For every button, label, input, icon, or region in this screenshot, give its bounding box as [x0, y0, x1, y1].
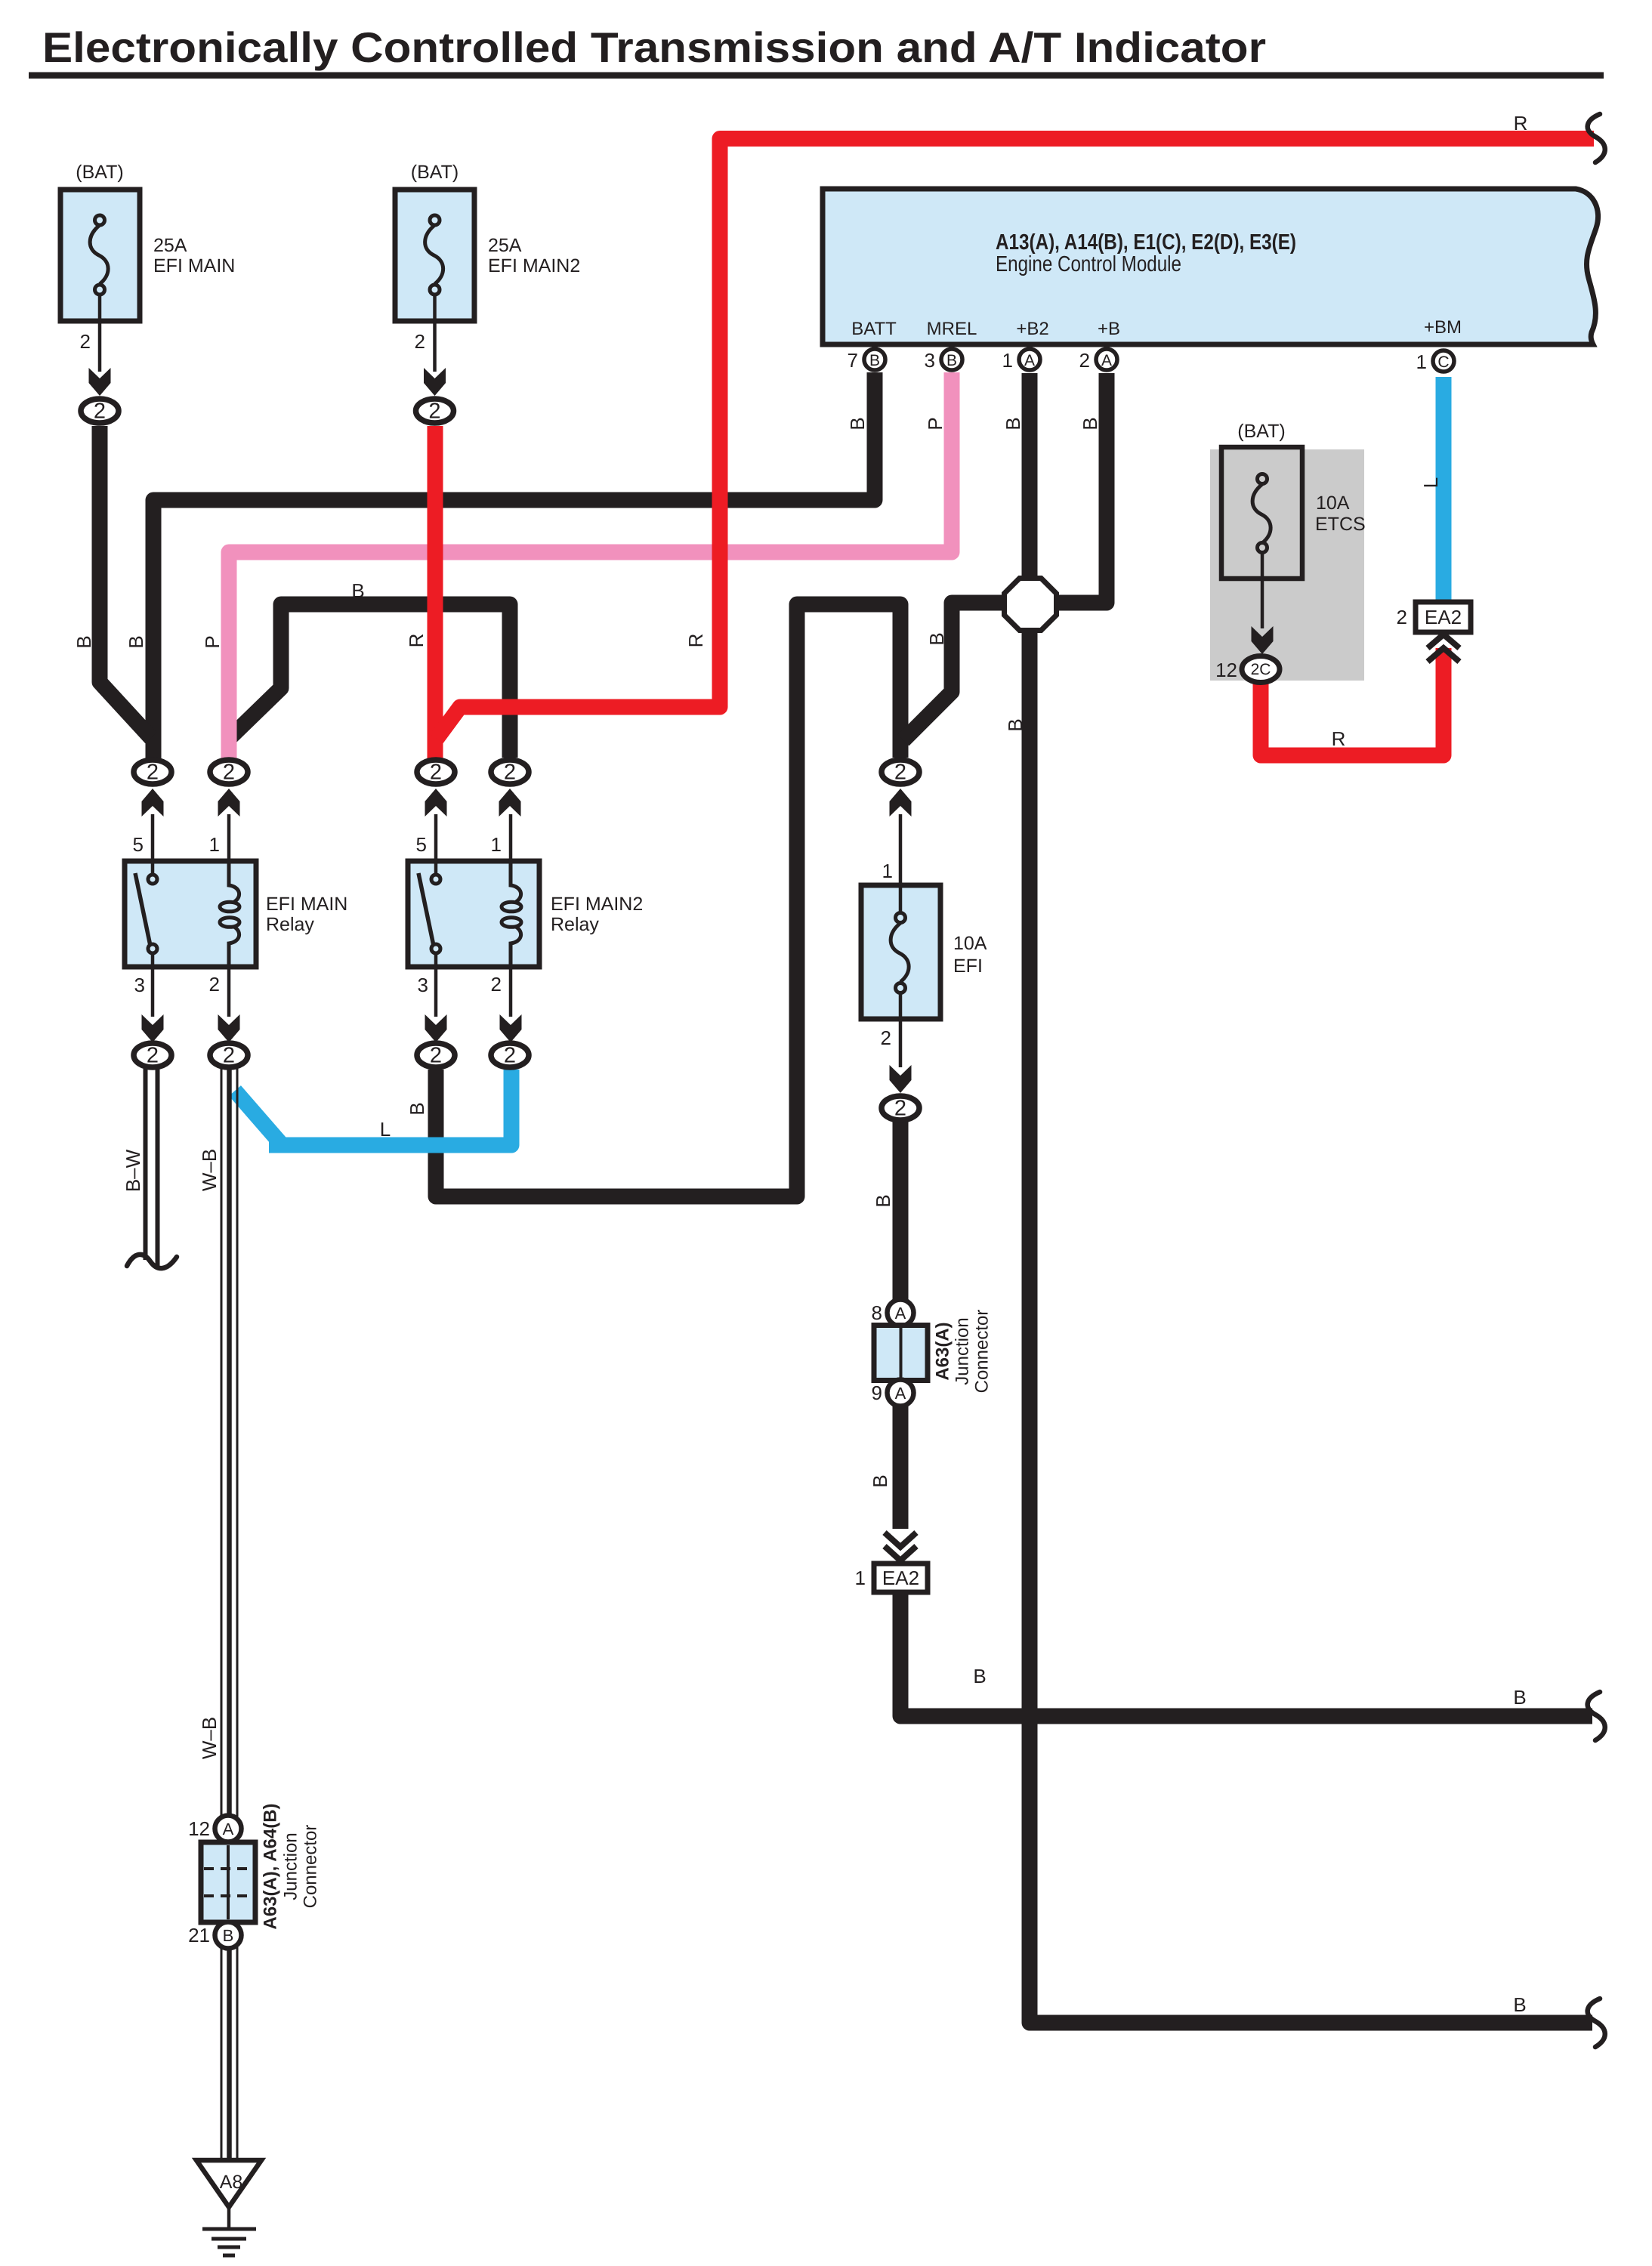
node connector 2 at relay1 pin 2	[210, 1043, 248, 1067]
junction connector A63(A) pin 8 circle	[888, 1300, 914, 1326]
wire B below EA2 pin 1: down, corner, right to break	[900, 1592, 1592, 1716]
node connector 2 at relay2 pin 2	[491, 1043, 529, 1067]
node octagon junction of +B2/+B/B wires	[1005, 579, 1057, 631]
svg-text:2: 2	[430, 1044, 442, 1068]
svg-text:W–B: W–B	[198, 1149, 221, 1191]
node connector 2 at relay EFI MAIN pin 1	[210, 760, 248, 784]
svg-text:2: 2	[428, 400, 440, 424]
svg-text:A63(A): A63(A)	[933, 1322, 953, 1380]
node connector 2 at relay1 pin 3	[134, 1043, 171, 1067]
svg-text:1: 1	[1416, 350, 1427, 373]
wire P pink overlay at relay1 pin1 junction	[221, 709, 237, 758]
wire B BATT: ECM BATT pin left and down to relay EFI MAIN pin 5	[153, 372, 875, 758]
svg-text:A: A	[223, 1820, 234, 1838]
svg-text:EFI MAIN: EFI MAIN	[266, 894, 347, 915]
wire R red: fuse ETCS 2C pin 12 down, right, up to EA2 pin 2	[1261, 648, 1444, 755]
fuse EFI MAIN2 symbol	[425, 225, 443, 284]
svg-text:2: 2	[881, 1026, 891, 1049]
ETCS gray panel	[1210, 449, 1364, 681]
EA2 connector box (pin 1)	[874, 1564, 928, 1592]
svg-text:10A: 10A	[953, 933, 987, 954]
relay1 pin 3 wire and arrow into connector	[151, 967, 155, 1017]
ECM box (Engine Control Module)	[823, 189, 1598, 344]
relay1 pin 2 wire and arrow into connector	[227, 967, 231, 1017]
svg-text:12: 12	[1215, 659, 1237, 681]
junction connector A63(A) pin 9 circle	[888, 1380, 914, 1406]
svg-text:B: B	[869, 1474, 891, 1487]
svg-text:25A: 25A	[153, 235, 187, 256]
svg-text:(BAT): (BAT)	[1237, 421, 1285, 442]
svg-text:3: 3	[134, 974, 145, 996]
svg-text:2: 2	[94, 400, 106, 424]
svg-text:B: B	[846, 417, 869, 430]
svg-text:B: B	[223, 1926, 234, 1945]
svg-text:8: 8	[872, 1301, 882, 1324]
svg-text:1: 1	[882, 860, 893, 882]
svg-text:B: B	[946, 352, 957, 369]
svg-text:7: 7	[848, 349, 858, 372]
svg-text:A: A	[1024, 352, 1035, 369]
wire B EFI fuse pin2 oval down to junction connector A63(A) pin 8	[893, 1121, 909, 1301]
fuse ETCS symbol	[1252, 484, 1271, 543]
svg-text:2: 2	[894, 1097, 906, 1121]
svg-text:B: B	[1513, 1686, 1526, 1709]
svg-text:1: 1	[855, 1567, 866, 1589]
ECM pin +B2 circle 1 A	[1019, 349, 1040, 370]
svg-text:EFI MAIN2: EFI MAIN2	[551, 894, 643, 915]
svg-text:Relay: Relay	[551, 914, 599, 935]
svg-text:R: R	[1332, 727, 1346, 750]
arrow into fuse EFI MAIN lower connector	[98, 295, 102, 372]
svg-text:2: 2	[223, 761, 235, 785]
svg-text:B: B	[869, 352, 880, 369]
fuse EFI box	[861, 885, 940, 1019]
ECM pin +BM circle 1 C	[1433, 350, 1454, 372]
junction connector A63(A) body	[874, 1326, 928, 1381]
svg-text:2C: 2C	[1251, 661, 1271, 678]
svg-text:B: B	[925, 632, 948, 645]
ground hatching	[227, 2207, 231, 2229]
svg-text:B: B	[1513, 1993, 1526, 2016]
svg-text:9: 9	[872, 1382, 882, 1404]
svg-text:B: B	[1079, 417, 1101, 430]
ECM pin +B circle 2 A	[1096, 349, 1117, 370]
ECM pin MREL circle 3 B	[941, 349, 962, 370]
svg-text:R: R	[1514, 112, 1528, 134]
wire B-W from relay EFI MAIN pin 3 (two black lines)	[144, 1069, 148, 1260]
wire B octagon junction bottom: long vertical down, right to break	[1030, 627, 1592, 2023]
svg-text:R: R	[684, 634, 707, 648]
svg-text:R: R	[405, 634, 428, 648]
wire W-B from junction connector pin 21 down to ground A8	[227, 1947, 232, 2160]
svg-text:2: 2	[1397, 606, 1407, 628]
svg-text:21: 21	[188, 1924, 210, 1946]
junction connector A63(A),A64(B) pin 21 circle B	[215, 1922, 242, 1949]
wire B +B: ECM +B pin down and left into octagon junction	[1053, 373, 1107, 603]
EA2 connector box (pin 2)	[1416, 602, 1471, 632]
svg-text:B: B	[351, 579, 364, 602]
svg-text:+B: +B	[1098, 319, 1120, 339]
node connector 2 at relay2 pin 3	[417, 1043, 455, 1067]
relay EFI MAIN2 box	[408, 861, 539, 967]
node connector 2 at relay EFI MAIN2 pin 1	[491, 760, 529, 784]
svg-text:+B2: +B2	[1016, 319, 1048, 339]
arrow up into relay1 pin1 connector, pin 1 wire	[218, 789, 240, 817]
svg-text:Electronically Controlled Tran: Electronically Controlled Transmission a…	[42, 23, 1266, 71]
svg-text:B: B	[406, 1102, 428, 1115]
svg-text:P: P	[924, 417, 946, 430]
wire B junction connector A63(A) pin 9 down to EA2 pin 1	[893, 1405, 909, 1529]
svg-text:2: 2	[894, 761, 906, 785]
svg-text:Junction: Junction	[953, 1317, 973, 1385]
relay EFI MAIN box	[125, 861, 256, 967]
wire P MREL pink: ECM MREL pin to relay EFI MAIN pin 1	[229, 372, 952, 758]
svg-text:B: B	[125, 635, 147, 648]
wire L blue diagonal from relay1 pin2 (under W-B wire)	[235, 1091, 280, 1143]
svg-text:10A: 10A	[1316, 492, 1350, 514]
svg-text:B: B	[872, 1194, 894, 1207]
break squiggle at B wire right end (middle)	[1588, 1692, 1605, 1740]
svg-text:2: 2	[504, 761, 516, 785]
svg-text:Connector: Connector	[301, 1825, 321, 1909]
arrow up into relay2 pin5 connector, pin 5 wire	[425, 789, 447, 817]
svg-text:2: 2	[147, 761, 159, 785]
arrow up into relay1 pin5 connector, pin 5 wire	[142, 789, 164, 817]
svg-text:Connector: Connector	[972, 1310, 993, 1394]
svg-text:25A: 25A	[488, 235, 522, 256]
relay EFI MAIN switch	[135, 873, 150, 946]
node connector 2 at relay EFI MAIN2 pin 5	[417, 760, 455, 784]
EFI fuse pin 2 wire and arrow into connector	[899, 993, 903, 1067]
svg-text:ETCS: ETCS	[1315, 514, 1366, 535]
svg-text:2: 2	[415, 330, 425, 353]
svg-text:2: 2	[147, 1044, 159, 1068]
wire L blue: relay1 pin2 branch diagonal, right, up to relay2 pin 2	[269, 1070, 511, 1145]
relay EFI MAIN2 coil	[511, 861, 521, 902]
node connector 2 above fuse EFI pin 1	[882, 760, 919, 784]
arrow up into relay2 pin1 connector, pin 1 wire	[499, 789, 521, 817]
svg-text:B: B	[73, 635, 95, 648]
break squiggle at B wire right end (bottom)	[1588, 1999, 1605, 2047]
arrow up into EFI fuse upper connector, pin 1 wire	[890, 789, 912, 817]
svg-text:BATT: BATT	[851, 319, 897, 339]
svg-text:1: 1	[491, 833, 502, 856]
fuse ETCS box	[1221, 447, 1302, 579]
svg-text:B: B	[973, 1665, 986, 1687]
svg-text:2: 2	[209, 973, 220, 996]
wire R red: fuse EFI MAIN2 down to relay EFI MAIN2 pin 5	[428, 426, 443, 758]
break squiggle at B-W wire end	[127, 1255, 177, 1268]
wire B +B2: ECM +B2 pin down to octagon junction	[1022, 373, 1038, 582]
svg-text:2: 2	[223, 1044, 235, 1068]
node connector 2 below fuse EFI MAIN	[81, 399, 119, 423]
wire B relay EFI MAIN2 pin5 output: down, right, up, right, down to EFI fuse node	[436, 604, 900, 1196]
svg-text:1: 1	[209, 833, 220, 856]
svg-text:5: 5	[416, 833, 427, 856]
svg-text:Engine Control Module: Engine Control Module	[996, 252, 1181, 276]
svg-text:Junction: Junction	[281, 1832, 301, 1900]
relay EFI MAIN coil	[229, 861, 239, 902]
svg-text:2: 2	[80, 330, 91, 353]
title underline	[29, 73, 1604, 79]
junction connector A63(A),A64(B) body	[201, 1842, 255, 1922]
svg-text:B: B	[1002, 417, 1024, 430]
svg-text:EFI MAIN2: EFI MAIN2	[488, 255, 580, 276]
svg-text:A: A	[895, 1304, 906, 1323]
ground A8 triangle	[196, 2160, 261, 2207]
svg-text:L: L	[380, 1118, 391, 1141]
wire B from fuse EFI MAIN down, diagonal merge into BATT wire	[100, 426, 151, 738]
svg-text:B–W: B–W	[122, 1149, 144, 1192]
svg-text:A: A	[1101, 352, 1112, 369]
svg-text:(BAT): (BAT)	[411, 162, 459, 183]
EA2 connector pin 1 chevrons	[885, 1533, 916, 1561]
svg-text:A8: A8	[220, 2172, 243, 2193]
node connector 2C at ETCS fuse pin 12	[1242, 656, 1280, 683]
svg-text:3: 3	[925, 349, 935, 372]
svg-text:1: 1	[1002, 349, 1013, 372]
EA2 connector pin 2 chevrons	[1428, 634, 1459, 662]
svg-text:2: 2	[504, 1044, 516, 1068]
junction connector A63(A),A64(B) pin 12 circle A	[215, 1816, 242, 1842]
svg-text:EFI MAIN: EFI MAIN	[153, 255, 235, 276]
svg-text:W–B: W–B	[198, 1717, 221, 1759]
svg-text:C: C	[1437, 353, 1449, 371]
node connector 2 below fuse EFI MAIN2	[416, 399, 454, 423]
relay EFI MAIN2 switch	[418, 873, 434, 946]
svg-text:MREL: MREL	[927, 319, 977, 339]
break squiggle at R wire right end	[1588, 114, 1605, 162]
svg-text:L: L	[1419, 477, 1442, 488]
svg-text:(BAT): (BAT)	[76, 162, 123, 183]
wire R red: branch diagonal up to horizontal, up vertical, right to break	[437, 139, 1594, 739]
svg-text:2: 2	[491, 973, 502, 996]
svg-text:2: 2	[430, 761, 442, 785]
fuse EFI MAIN2 box	[395, 190, 474, 321]
svg-text:12: 12	[188, 1817, 210, 1840]
relay2 pin 3 wire and arrow into connector	[434, 967, 438, 1017]
svg-text:5: 5	[133, 833, 144, 856]
svg-text:A: A	[895, 1384, 906, 1403]
svg-text:EFI: EFI	[953, 955, 983, 977]
svg-text:EA2: EA2	[882, 1567, 919, 1589]
svg-text:Relay: Relay	[266, 914, 314, 935]
ETCS fuse pin 12 wire and arrow into connector	[1261, 552, 1264, 628]
fuse EFI MAIN symbol	[90, 225, 108, 284]
relay2 pin 2 wire and arrow into connector	[509, 967, 513, 1017]
svg-text:+BM: +BM	[1424, 317, 1462, 338]
node connector 2 at relay EFI MAIN pin 5	[134, 760, 171, 784]
wire B link relay1 pin1 to relay2 pin1 (horizontal y800)	[228, 604, 510, 758]
ECM pin BATT circle 7 B	[864, 349, 885, 370]
node connector 2 below EFI fuse	[882, 1096, 919, 1120]
fuse EFI symbol	[891, 923, 909, 982]
svg-text:A63(A), A64(B): A63(A), A64(B)	[261, 1803, 281, 1929]
svg-text:3: 3	[418, 974, 428, 996]
wire W-B from relay EFI MAIN pin 2 down to junction connector A63(A),A64(B)	[227, 1069, 232, 1817]
wire L blue: ECM +BM pin down to EA2 pin 2	[1436, 377, 1452, 600]
svg-text:B: B	[1004, 718, 1027, 731]
svg-text:EA2: EA2	[1425, 606, 1462, 628]
svg-text:A13(A), A14(B), E1(C), E2(D),: A13(A), A14(B), E1(C), E2(D), E3(E)	[996, 230, 1296, 255]
fuse EFI MAIN box	[60, 190, 140, 321]
svg-text:P: P	[201, 635, 224, 648]
arrow into fuse EFI MAIN2 lower connector	[433, 295, 437, 372]
wire B octagon junction left branch down to EFI fuse node	[903, 603, 1005, 740]
svg-text:2: 2	[1079, 349, 1090, 372]
